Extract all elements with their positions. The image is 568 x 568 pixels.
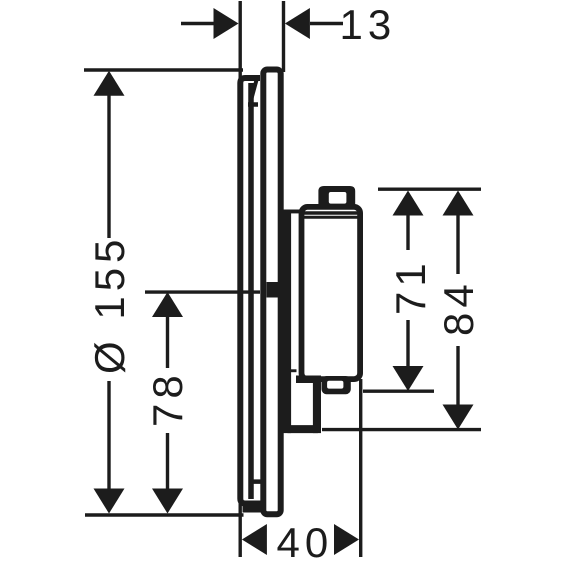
svg-text:Ø 155: Ø 155 [86, 235, 133, 374]
arrowhead dim 78 down [152, 489, 183, 514]
arrowhead dim 13 pointing right [214, 8, 239, 39]
dimension line 13 left tail [181, 22, 214, 25]
extension line bottom of dim 84 [322, 428, 481, 431]
arrowhead dim 71 down [393, 366, 424, 391]
bottom tab of valve body [322, 376, 351, 394]
dimension line 84 lower segment [456, 346, 459, 405]
svg-text:13: 13 [340, 1, 397, 48]
plate mid seam block [267, 282, 289, 298]
arrowhead dim 13 pointing left [285, 8, 310, 39]
extension line right of dim 13 [282, 1, 285, 72]
escutcheon plate side view [263, 70, 288, 515]
dimension line 71 upper segment [406, 215, 409, 250]
svg-text:40: 40 [277, 519, 334, 566]
svg-text:78: 78 [144, 370, 191, 427]
valve body [284, 186, 361, 433]
dimension line 71 lower segment [406, 320, 409, 367]
dimension line 155 upper segment [107, 95, 110, 238]
top tab of valve body [318, 186, 355, 208]
mounting strip left wall behind plate [284, 210, 292, 434]
extension line left of dim 13 [238, 1, 241, 82]
svg-text:71: 71 [387, 258, 434, 315]
extension line right of dim 40 [359, 379, 362, 557]
sleeve-to-plate bottom bridge [243, 503, 264, 513]
arrowhead dim 84 down [443, 405, 474, 430]
arrowhead dim 155 down [94, 489, 125, 514]
dimension line 155 lower segment [107, 381, 110, 489]
mounting strip top band [284, 210, 300, 214]
svg-text:84: 84 [435, 279, 482, 336]
handle inner edge line [248, 83, 254, 499]
arrowhead dim 71 up [393, 191, 424, 216]
extension line top (plate top, for dim 155) [84, 68, 243, 71]
dimension line 84 upper segment [456, 215, 459, 274]
valve body outline [302, 207, 361, 379]
bottom bracket fitting [296, 376, 321, 384]
arrowhead dim 84 up [443, 191, 474, 216]
body cap seam line 2 [302, 216, 360, 219]
dimension line 78 lower segment [166, 433, 169, 489]
dimension line 78 upper segment [166, 316, 169, 368]
dimension line 13 right tail [310, 22, 343, 25]
extension line left of dim 40 [238, 500, 241, 557]
extension line top of dim 78 [145, 290, 260, 293]
handle bottom joint [249, 479, 266, 484]
extension line top of dims 71 and 84 [378, 187, 481, 190]
handle top joint [248, 102, 258, 107]
handle top taper [251, 80, 257, 102]
arrowhead dim 40 pointing right [334, 524, 359, 555]
arrowhead dim 78 up [152, 292, 183, 317]
body cap seam line 1 [302, 211, 360, 214]
extension line bottom of dim 71 [363, 390, 434, 393]
extension line bottom (plate bottom, for dims 155 and 78) [85, 513, 244, 516]
arrowhead dim 40 pointing left [242, 524, 267, 555]
arrowhead dim 155 up [94, 71, 125, 96]
handle sleeve front profile [240, 78, 265, 513]
